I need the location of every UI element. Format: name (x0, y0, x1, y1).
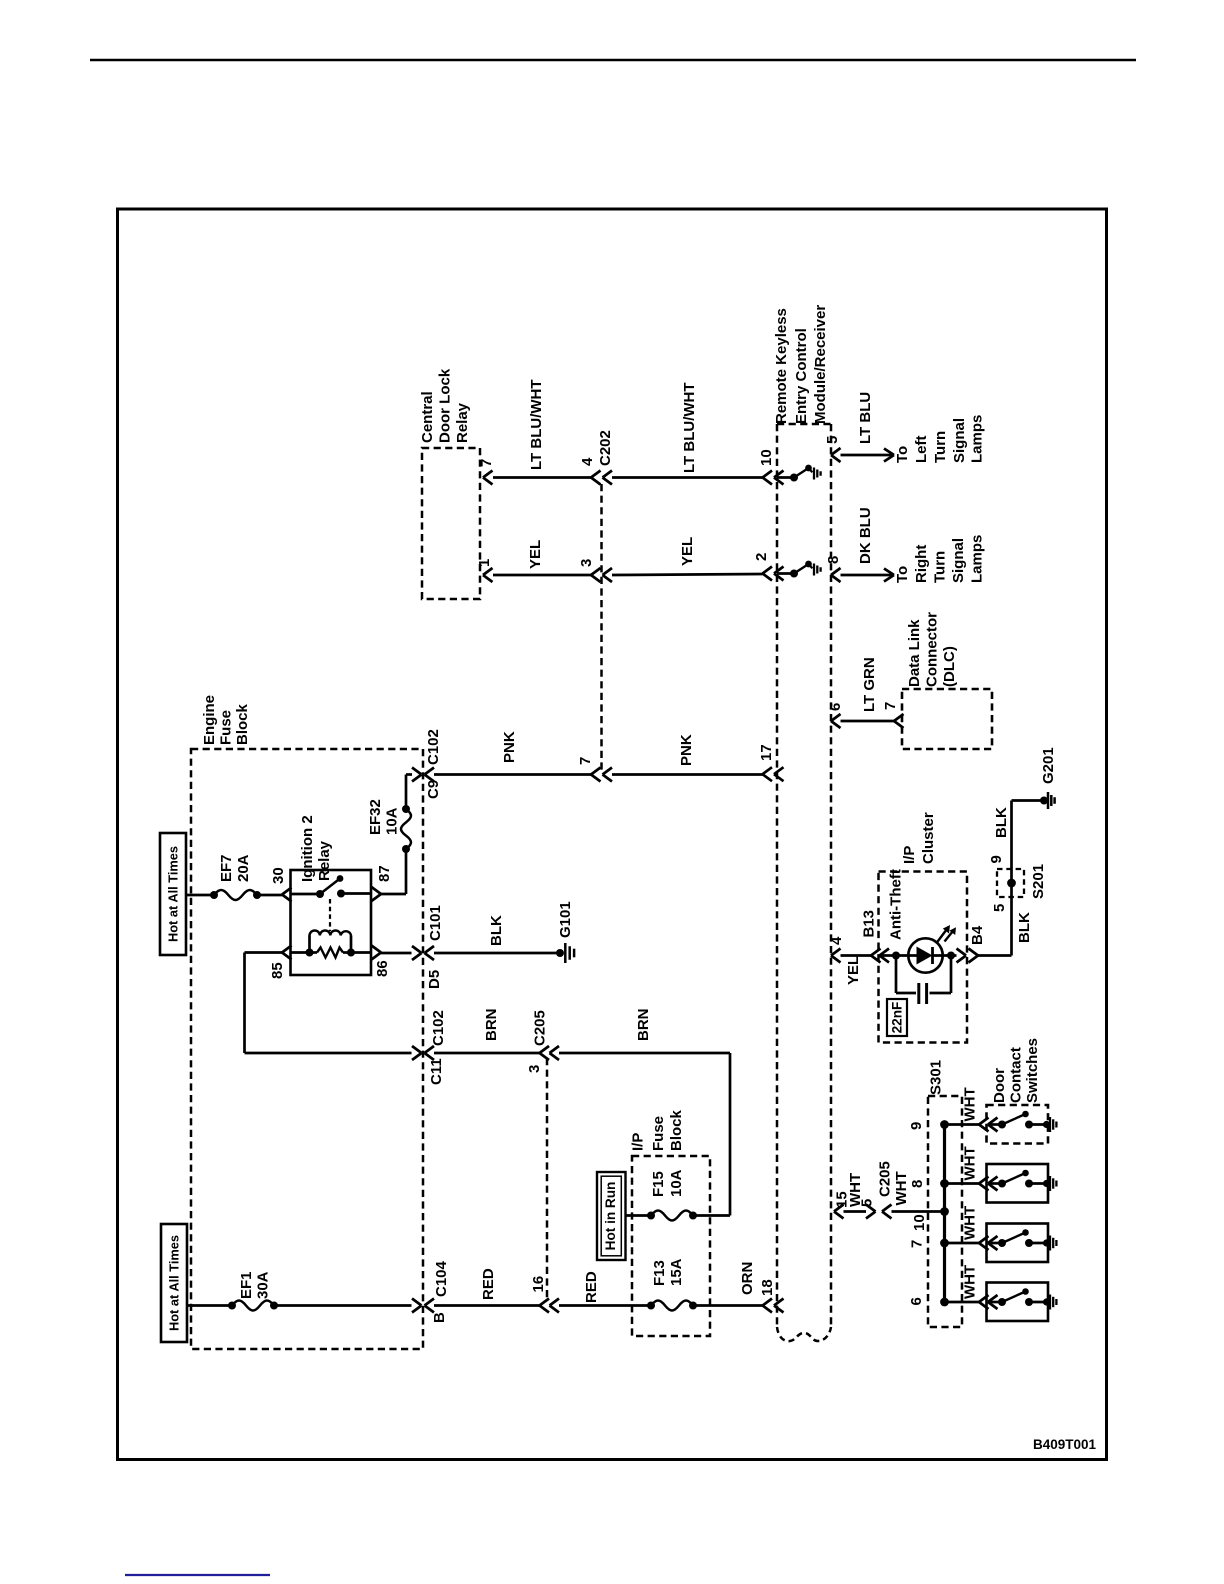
svg-text:Fuse: Fuse (218, 710, 235, 745)
svg-text:Central: Central (419, 391, 436, 443)
svg-text:B4: B4 (969, 925, 986, 945)
svg-text:Signal: Signal (951, 418, 968, 463)
svg-text:F13: F13 (651, 1260, 668, 1286)
svg-text:To: To (894, 566, 911, 583)
svg-text:C104: C104 (433, 1260, 450, 1297)
svg-text:S301: S301 (928, 1060, 945, 1095)
svg-text:EF7: EF7 (218, 854, 235, 882)
svg-text:20A: 20A (235, 854, 252, 882)
svg-text:2: 2 (753, 553, 770, 561)
svg-text:5: 5 (859, 1199, 876, 1207)
svg-text:Remote Keyless: Remote Keyless (773, 308, 790, 424)
svg-text:18: 18 (759, 1279, 776, 1296)
svg-text:WHT: WHT (962, 1265, 979, 1299)
svg-text:C101: C101 (427, 905, 444, 941)
svg-text:Signal: Signal (950, 538, 967, 583)
svg-text:DK BLU: DK BLU (857, 507, 874, 564)
svg-text:YEL: YEL (527, 540, 544, 569)
svg-text:BLK: BLK (488, 915, 505, 946)
svg-text:Lamps: Lamps (969, 415, 986, 463)
svg-text:Relay: Relay (316, 840, 333, 881)
svg-text:LT BLU/WHT: LT BLU/WHT (681, 382, 698, 473)
svg-text:C205: C205 (877, 1161, 894, 1197)
svg-text:Anti-Theft: Anti-Theft (888, 869, 905, 940)
svg-text:1: 1 (476, 559, 493, 567)
svg-text:10A: 10A (384, 807, 401, 835)
svg-text:87: 87 (376, 865, 393, 882)
svg-text:10: 10 (758, 449, 775, 466)
svg-text:Door: Door (991, 1068, 1008, 1103)
svg-text:4: 4 (828, 936, 845, 945)
svg-text:BLK: BLK (1016, 912, 1033, 943)
svg-text:10A: 10A (668, 1169, 685, 1197)
svg-text:LT BLU/WHT: LT BLU/WHT (528, 379, 545, 470)
svg-text:BRN: BRN (635, 1009, 652, 1042)
svg-text:Cluster: Cluster (920, 812, 937, 864)
svg-text:ORN: ORN (739, 1262, 756, 1295)
svg-text:S201: S201 (1030, 864, 1047, 899)
svg-text:Contact: Contact (1008, 1047, 1025, 1103)
svg-text:6: 6 (908, 1297, 925, 1305)
svg-text:Left: Left (913, 436, 930, 464)
svg-text:22nF: 22nF (890, 1002, 905, 1034)
svg-text:RED: RED (583, 1271, 600, 1303)
svg-text:PNK: PNK (501, 731, 518, 763)
svg-text:YEL: YEL (679, 537, 696, 566)
svg-text:YEL: YEL (845, 956, 862, 985)
svg-text:Door Lock: Door Lock (437, 368, 454, 443)
svg-text:B409T001: B409T001 (1033, 1437, 1097, 1452)
svg-text:(DLC): (DLC) (941, 646, 958, 687)
svg-text:7: 7 (478, 459, 495, 467)
svg-text:7: 7 (577, 757, 594, 765)
svg-text:WHT: WHT (893, 1171, 910, 1205)
svg-text:4: 4 (579, 457, 596, 466)
svg-text:Right: Right (913, 545, 930, 583)
svg-text:WHT: WHT (962, 1087, 979, 1121)
svg-text:3: 3 (578, 559, 595, 567)
svg-text:5: 5 (991, 904, 1008, 912)
svg-text:EF32: EF32 (367, 799, 384, 835)
svg-text:Ignition 2: Ignition 2 (299, 815, 316, 882)
svg-text:WHT: WHT (962, 1206, 979, 1240)
svg-text:Relay: Relay (454, 402, 471, 443)
svg-text:Entry Control: Entry Control (793, 328, 810, 424)
svg-text:D5: D5 (426, 970, 443, 989)
svg-text:BLK: BLK (993, 807, 1010, 838)
svg-text:G201: G201 (1040, 747, 1057, 784)
svg-text:I/P: I/P (901, 846, 918, 864)
svg-text:Block: Block (234, 703, 251, 745)
svg-text:7: 7 (909, 1240, 926, 1248)
svg-text:8: 8 (825, 556, 842, 564)
svg-text:Engine: Engine (201, 695, 218, 745)
svg-text:To: To (894, 446, 911, 463)
svg-text:85: 85 (269, 962, 286, 979)
svg-text:Fuse: Fuse (650, 1116, 667, 1151)
svg-text:BRN: BRN (483, 1009, 500, 1042)
svg-text:C102: C102 (425, 729, 442, 765)
svg-text:9: 9 (988, 855, 1005, 863)
svg-text:3: 3 (526, 1065, 543, 1073)
svg-text:C102: C102 (430, 1010, 447, 1046)
svg-text:86: 86 (374, 960, 391, 977)
svg-text:I/P: I/P (630, 1133, 647, 1151)
svg-text:Hot at All Times: Hot at All Times (166, 846, 181, 942)
svg-text:15A: 15A (668, 1258, 685, 1286)
svg-text:Connector: Connector (924, 612, 941, 687)
svg-text:LT GRN: LT GRN (861, 657, 878, 712)
svg-text:Data Link: Data Link (906, 619, 923, 687)
svg-text:C205: C205 (532, 1010, 549, 1046)
svg-text:5: 5 (824, 436, 841, 444)
svg-text:Turn: Turn (932, 551, 949, 583)
svg-text:Switches: Switches (1024, 1038, 1041, 1103)
svg-text:7: 7 (882, 702, 899, 710)
svg-text:Lamps: Lamps (969, 535, 986, 583)
svg-text:WHT: WHT (962, 1146, 979, 1180)
svg-text:16: 16 (530, 1276, 547, 1293)
svg-text:Turn: Turn (932, 431, 949, 463)
svg-text:8: 8 (909, 1180, 926, 1188)
svg-text:C202: C202 (597, 430, 614, 466)
svg-text:10: 10 (911, 1214, 928, 1231)
svg-text:Module/Receiver: Module/Receiver (812, 305, 829, 424)
svg-text:RED: RED (480, 1268, 497, 1300)
svg-text:Hot in Run: Hot in Run (603, 1182, 618, 1251)
svg-text:C11: C11 (428, 1058, 445, 1085)
svg-text:B: B (431, 1312, 448, 1323)
svg-text:F15: F15 (650, 1171, 667, 1197)
svg-text:30: 30 (270, 867, 287, 884)
svg-text:EF1: EF1 (238, 1271, 255, 1299)
svg-text:G101: G101 (557, 901, 574, 938)
svg-text:LT BLU: LT BLU (857, 392, 874, 444)
svg-text:30A: 30A (255, 1271, 272, 1299)
svg-text:Hot at All Times: Hot at All Times (167, 1235, 182, 1331)
svg-text:B13: B13 (861, 910, 878, 938)
svg-text:9: 9 (908, 1122, 925, 1130)
svg-text:17: 17 (758, 744, 775, 761)
svg-text:C9: C9 (425, 780, 442, 799)
svg-text:Block: Block (668, 1109, 685, 1151)
svg-text:PNK: PNK (678, 734, 695, 766)
svg-text:6: 6 (827, 703, 844, 711)
